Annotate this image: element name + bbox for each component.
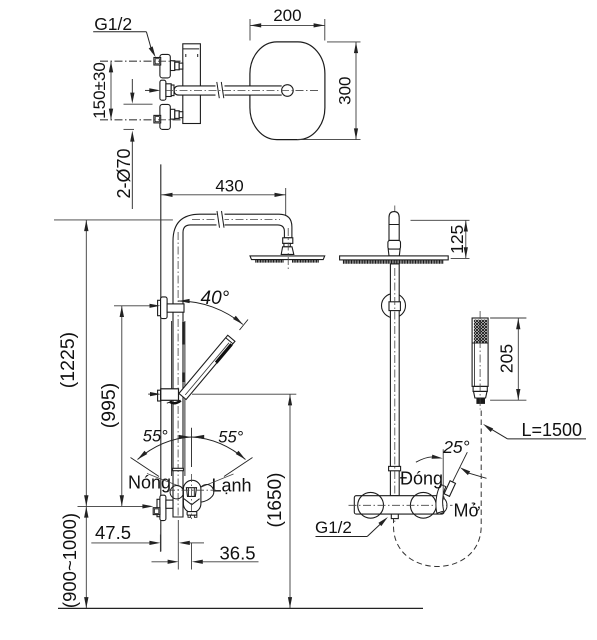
- svg-text:(995): (995): [98, 383, 120, 429]
- svg-text:55°: 55°: [218, 429, 243, 447]
- svg-text:47.5: 47.5: [95, 522, 131, 543]
- svg-text:205: 205: [496, 344, 516, 373]
- svg-text:(900~1000): (900~1000): [59, 513, 80, 608]
- svg-text:Mở: Mở: [454, 501, 481, 521]
- svg-text:(1225): (1225): [57, 332, 79, 388]
- svg-text:150±30: 150±30: [90, 62, 109, 119]
- svg-text:125: 125: [447, 225, 467, 254]
- svg-text:300: 300: [335, 77, 354, 105]
- svg-text:200: 200: [273, 6, 301, 25]
- svg-text:Lạnh: Lạnh: [212, 476, 252, 496]
- svg-text:(1650): (1650): [265, 473, 286, 528]
- svg-text:40°: 40°: [201, 288, 230, 309]
- svg-text:Đóng: Đóng: [400, 469, 443, 489]
- svg-text:G1/2: G1/2: [315, 518, 352, 537]
- svg-text:L=1500: L=1500: [522, 420, 583, 440]
- svg-text:55°: 55°: [143, 428, 168, 446]
- svg-text:25°: 25°: [442, 437, 469, 457]
- svg-text:Nóng: Nóng: [128, 473, 171, 493]
- svg-text:36.5: 36.5: [220, 542, 256, 563]
- svg-text:430: 430: [215, 177, 243, 196]
- svg-text:G1/2: G1/2: [94, 14, 132, 34]
- svg-text:2-Ø70: 2-Ø70: [114, 148, 134, 198]
